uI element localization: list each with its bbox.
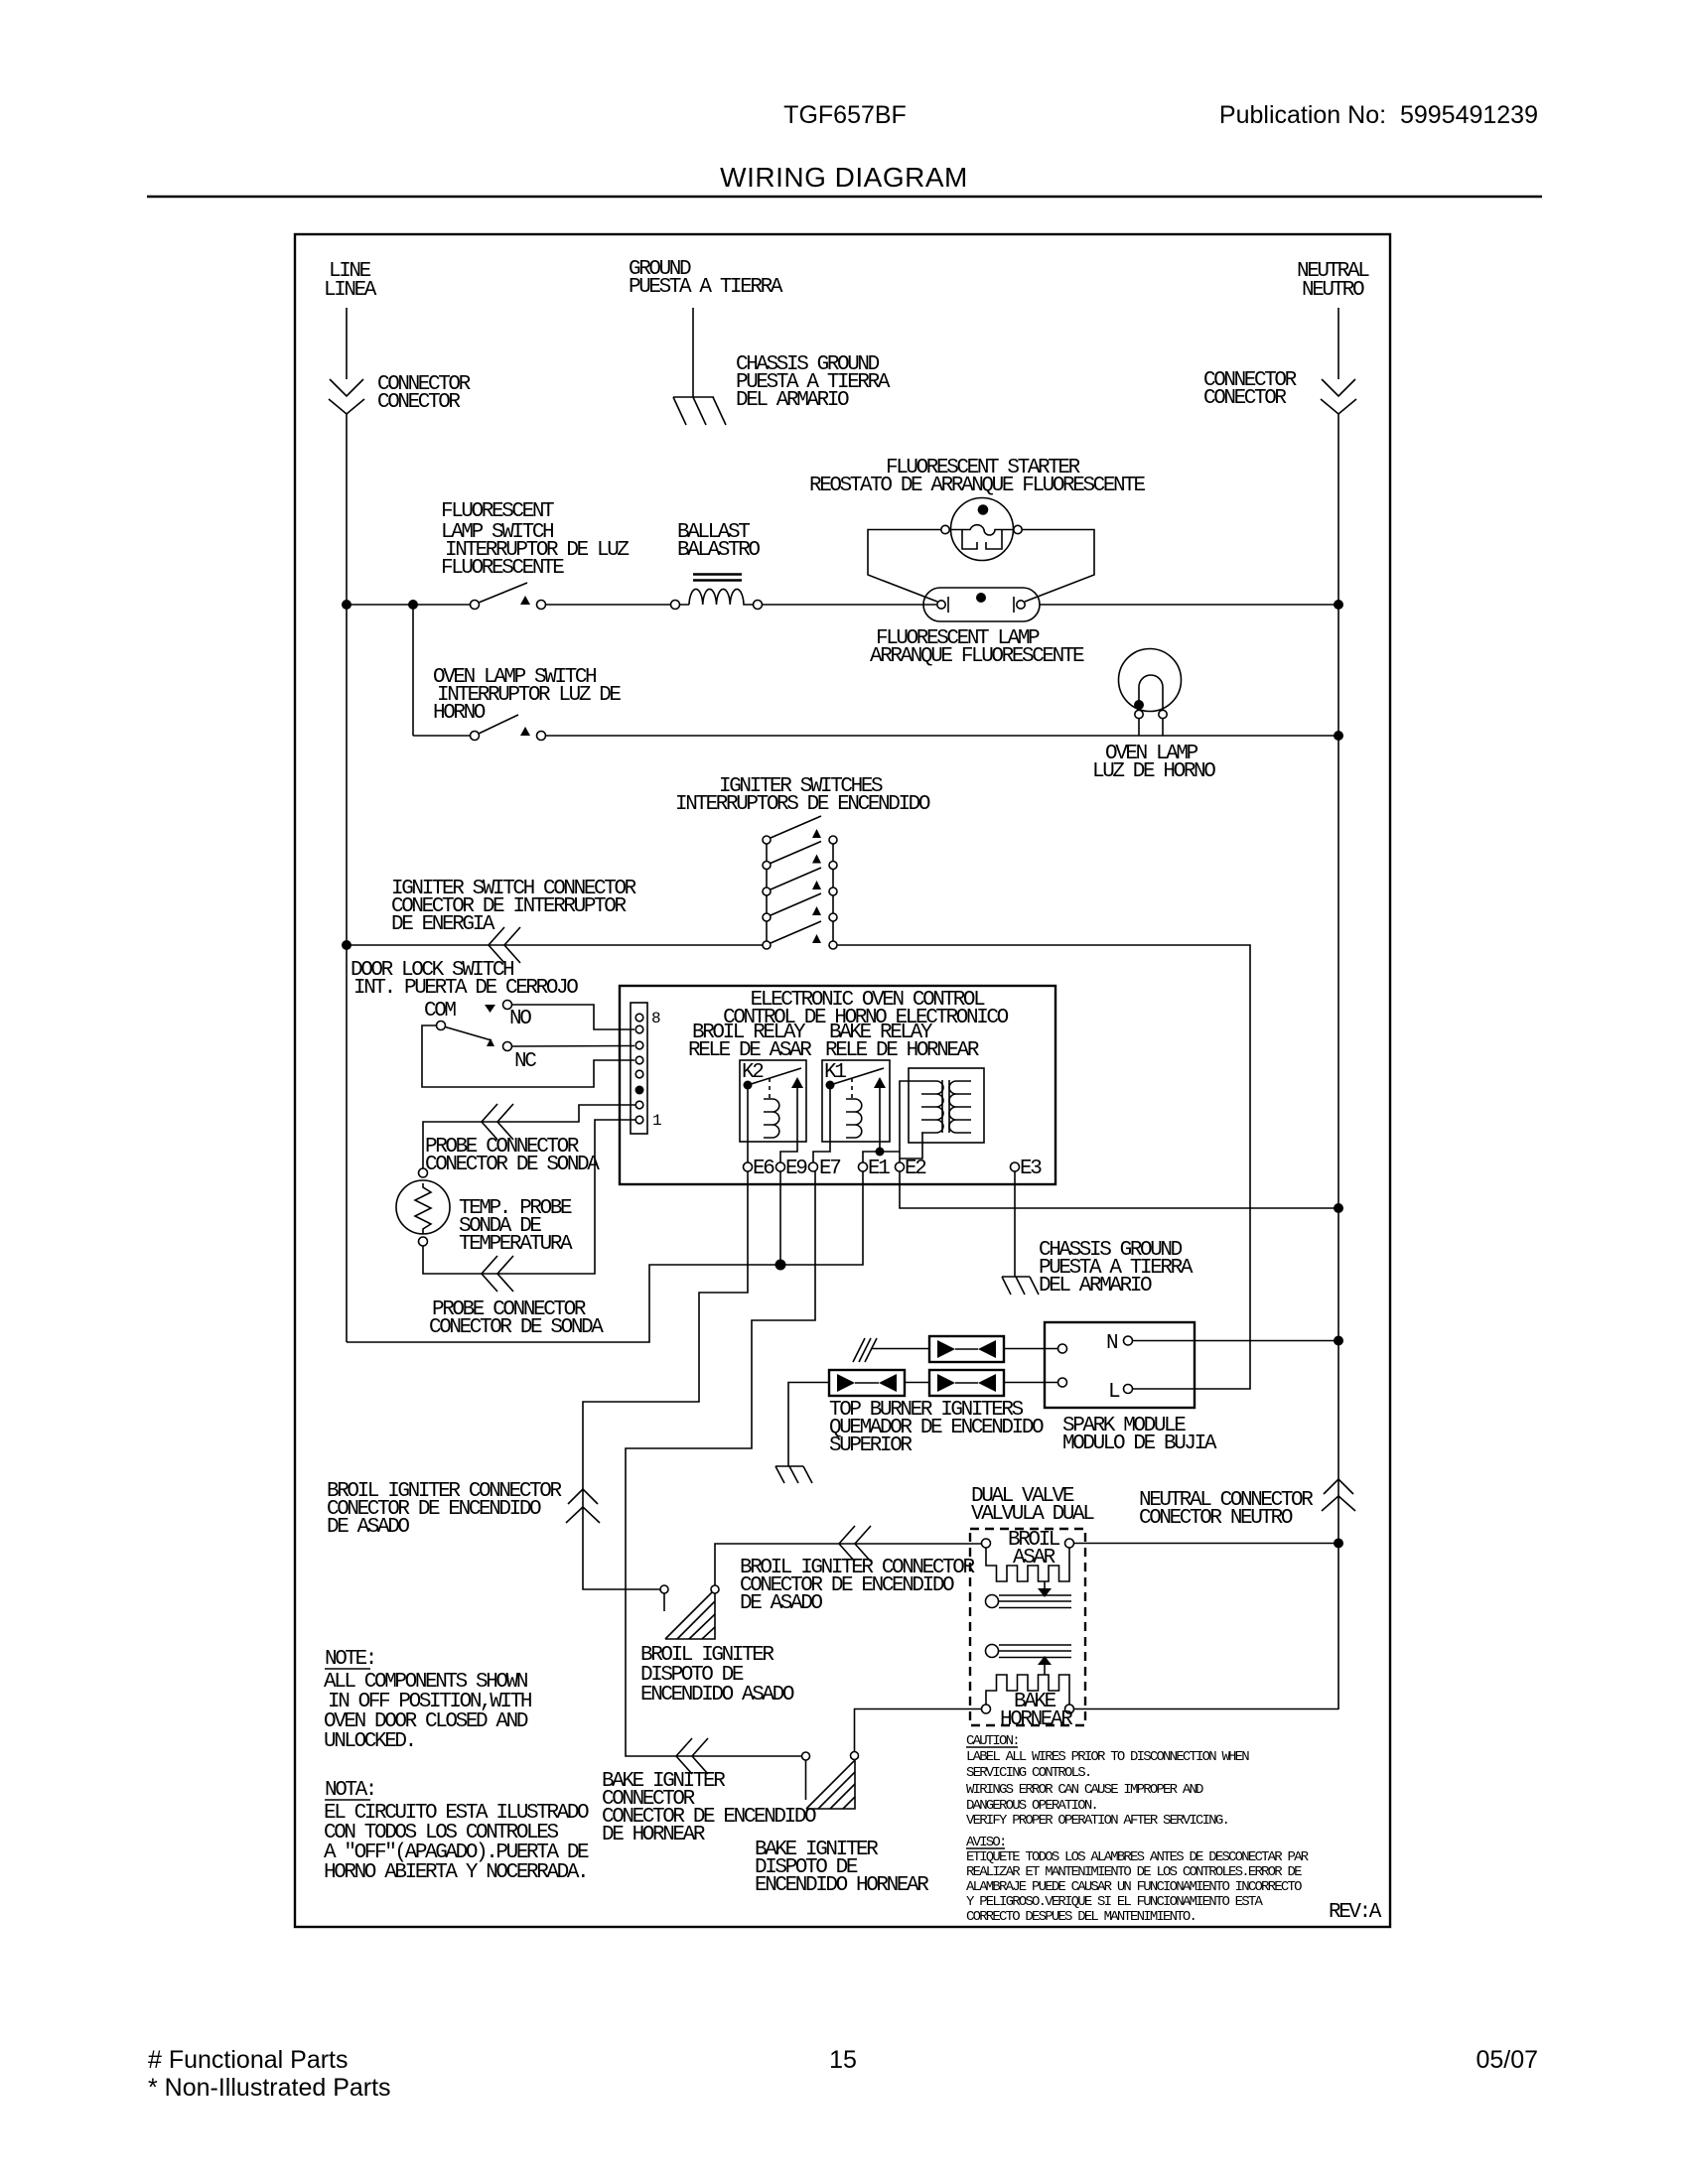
svg-text:REV:A: REV:A: [1329, 1901, 1382, 1924]
svg-text:CONECTOR: CONECTOR: [1203, 387, 1287, 410]
svg-text:LINEA: LINEA: [324, 279, 377, 302]
svg-text:CONECTOR NEUTRO: CONECTOR NEUTRO: [1139, 1507, 1293, 1530]
svg-text:REALIZAR ET MANTENIMIENTO DE L: REALIZAR ET MANTENIMIENTO DE LOS CONTROL…: [966, 1864, 1302, 1880]
svg-text:FLUORESCENTE: FLUORESCENTE: [441, 557, 564, 580]
svg-text:ALAMBRAJE PUEDE CAUSAR UN FUNC: ALAMBRAJE PUEDE CAUSAR UN FUNCIONAMIENTO…: [966, 1879, 1302, 1895]
svg-text:ENCENDIDO ASADO: ENCENDIDO ASADO: [640, 1684, 794, 1706]
svg-text:NO: NO: [509, 1008, 531, 1030]
svg-text:DE ASADO: DE ASADO: [740, 1592, 822, 1615]
svg-text:HORNO: HORNO: [433, 702, 486, 725]
svg-text:E7: E7: [819, 1158, 840, 1180]
svg-text:DEL ARMARIO: DEL ARMARIO: [736, 389, 849, 412]
svg-text:UNLOCKED.: UNLOCKED.: [324, 1730, 415, 1753]
svg-text:PUESTA A TIERRA: PUESTA A TIERRA: [629, 276, 783, 299]
svg-text:8: 8: [651, 1010, 660, 1027]
svg-text:NEUTRO: NEUTRO: [1302, 279, 1364, 302]
svg-text:05/07: 05/07: [1476, 2046, 1538, 2074]
svg-text:ENCENDIDO HORNEAR: ENCENDIDO HORNEAR: [755, 1874, 929, 1897]
svg-text:HORNEAR: HORNEAR: [1000, 1708, 1073, 1731]
svg-text:LUZ DE HORNO: LUZ DE HORNO: [1092, 760, 1215, 783]
svg-text:* Non-Illustrated Parts: * Non-Illustrated Parts: [148, 2074, 391, 2102]
svg-text:DEL ARMARIO: DEL ARMARIO: [1039, 1275, 1152, 1297]
svg-text:TEMPERATURA: TEMPERATURA: [459, 1233, 573, 1256]
svg-text:DANGEROUS OPERATION.: DANGEROUS OPERATION.: [966, 1798, 1097, 1814]
svg-text:E6: E6: [753, 1158, 774, 1180]
svg-text:NC: NC: [514, 1050, 536, 1073]
svg-text:1: 1: [652, 1112, 661, 1130]
svg-text:Y PELIGROSO.VERIQUE SI EL FUNC: Y PELIGROSO.VERIQUE SI EL FUNCIONAMIENTO…: [966, 1894, 1263, 1910]
svg-text:E3: E3: [1020, 1158, 1042, 1180]
svg-text:REOSTATO DE ARRANQUE FLUORESCE: REOSTATO DE ARRANQUE FLUORESCENTE: [809, 475, 1145, 497]
svg-text:DE HORNEAR: DE HORNEAR: [602, 1824, 706, 1846]
svg-text:HORNO ABIERTA Y NOCERRADA.: HORNO ABIERTA Y NOCERRADA.: [324, 1861, 587, 1884]
svg-text:TGF657BF: TGF657BF: [783, 101, 907, 129]
svg-text:RELE DE ASAR: RELE DE ASAR: [688, 1039, 812, 1062]
svg-text:LABEL ALL WIRES PRIOR TO DISCO: LABEL ALL WIRES PRIOR TO DISCONNECTION W…: [966, 1749, 1249, 1765]
svg-text:CONECTOR: CONECTOR: [377, 391, 461, 414]
svg-text:RELE DE HORNEAR: RELE DE HORNEAR: [825, 1039, 980, 1062]
svg-text:ETIQUETE TODOS LOS ALAMBRES AN: ETIQUETE TODOS LOS ALAMBRES ANTES DE DES…: [966, 1849, 1310, 1865]
svg-text:CONECTOR DE SONDA: CONECTOR DE SONDA: [429, 1316, 604, 1339]
svg-text:WIRING DIAGRAM: WIRING DIAGRAM: [720, 162, 968, 193]
svg-text:COM: COM: [424, 1000, 456, 1023]
svg-text:E2: E2: [905, 1158, 926, 1180]
svg-text:MODULO DE BUJIA: MODULO DE BUJIA: [1062, 1433, 1217, 1455]
svg-text:DE ENERGIA: DE ENERGIA: [391, 913, 495, 936]
svg-text:NOTA:: NOTA:: [325, 1779, 375, 1802]
svg-text:VERIFY PROPER OPERATION AFTER: VERIFY PROPER OPERATION AFTER SERVICING.: [966, 1813, 1228, 1829]
svg-text:VALVULA DUAL: VALVULA DUAL: [971, 1503, 1094, 1526]
svg-text:# Functional Parts: # Functional Parts: [148, 2046, 349, 2074]
svg-text:CORRECTO DESPUES DEL MANTENIMI: CORRECTO DESPUES DEL MANTENIMIENTO.: [966, 1909, 1196, 1925]
svg-text:E1: E1: [868, 1158, 890, 1180]
svg-text:CONECTOR DE SONDA: CONECTOR DE SONDA: [425, 1154, 600, 1176]
svg-text:WIRINGS ERROR CAN CAUSE IMPROP: WIRINGS ERROR CAN CAUSE IMPROPER AND: [966, 1782, 1203, 1798]
svg-text:FLUORESCENT: FLUORESCENT: [441, 500, 554, 523]
svg-text:N: N: [1106, 1332, 1117, 1355]
svg-text:DE ASADO: DE ASADO: [327, 1516, 409, 1539]
svg-text:INT. PUERTA DE CERROJO: INT. PUERTA DE CERROJO: [353, 977, 578, 1000]
svg-text:SUPERIOR: SUPERIOR: [829, 1434, 913, 1457]
svg-text:L: L: [1108, 1381, 1120, 1404]
svg-text:E9: E9: [785, 1158, 807, 1180]
svg-text:Publication No: 5995491239: Publication No: 5995491239: [1219, 101, 1538, 129]
svg-text:INTERRUPTORS DE ENCENDIDO: INTERRUPTORS DE ENCENDIDO: [675, 793, 930, 816]
svg-text:NOTE:: NOTE:: [325, 1648, 375, 1671]
svg-text:15: 15: [829, 2046, 857, 2074]
svg-text:SERVICING CONTROLS.: SERVICING CONTROLS.: [966, 1765, 1090, 1781]
svg-text:BALASTRO: BALASTRO: [677, 539, 760, 562]
svg-text:ARRANQUE FLUORESCENTE: ARRANQUE FLUORESCENTE: [870, 645, 1084, 668]
